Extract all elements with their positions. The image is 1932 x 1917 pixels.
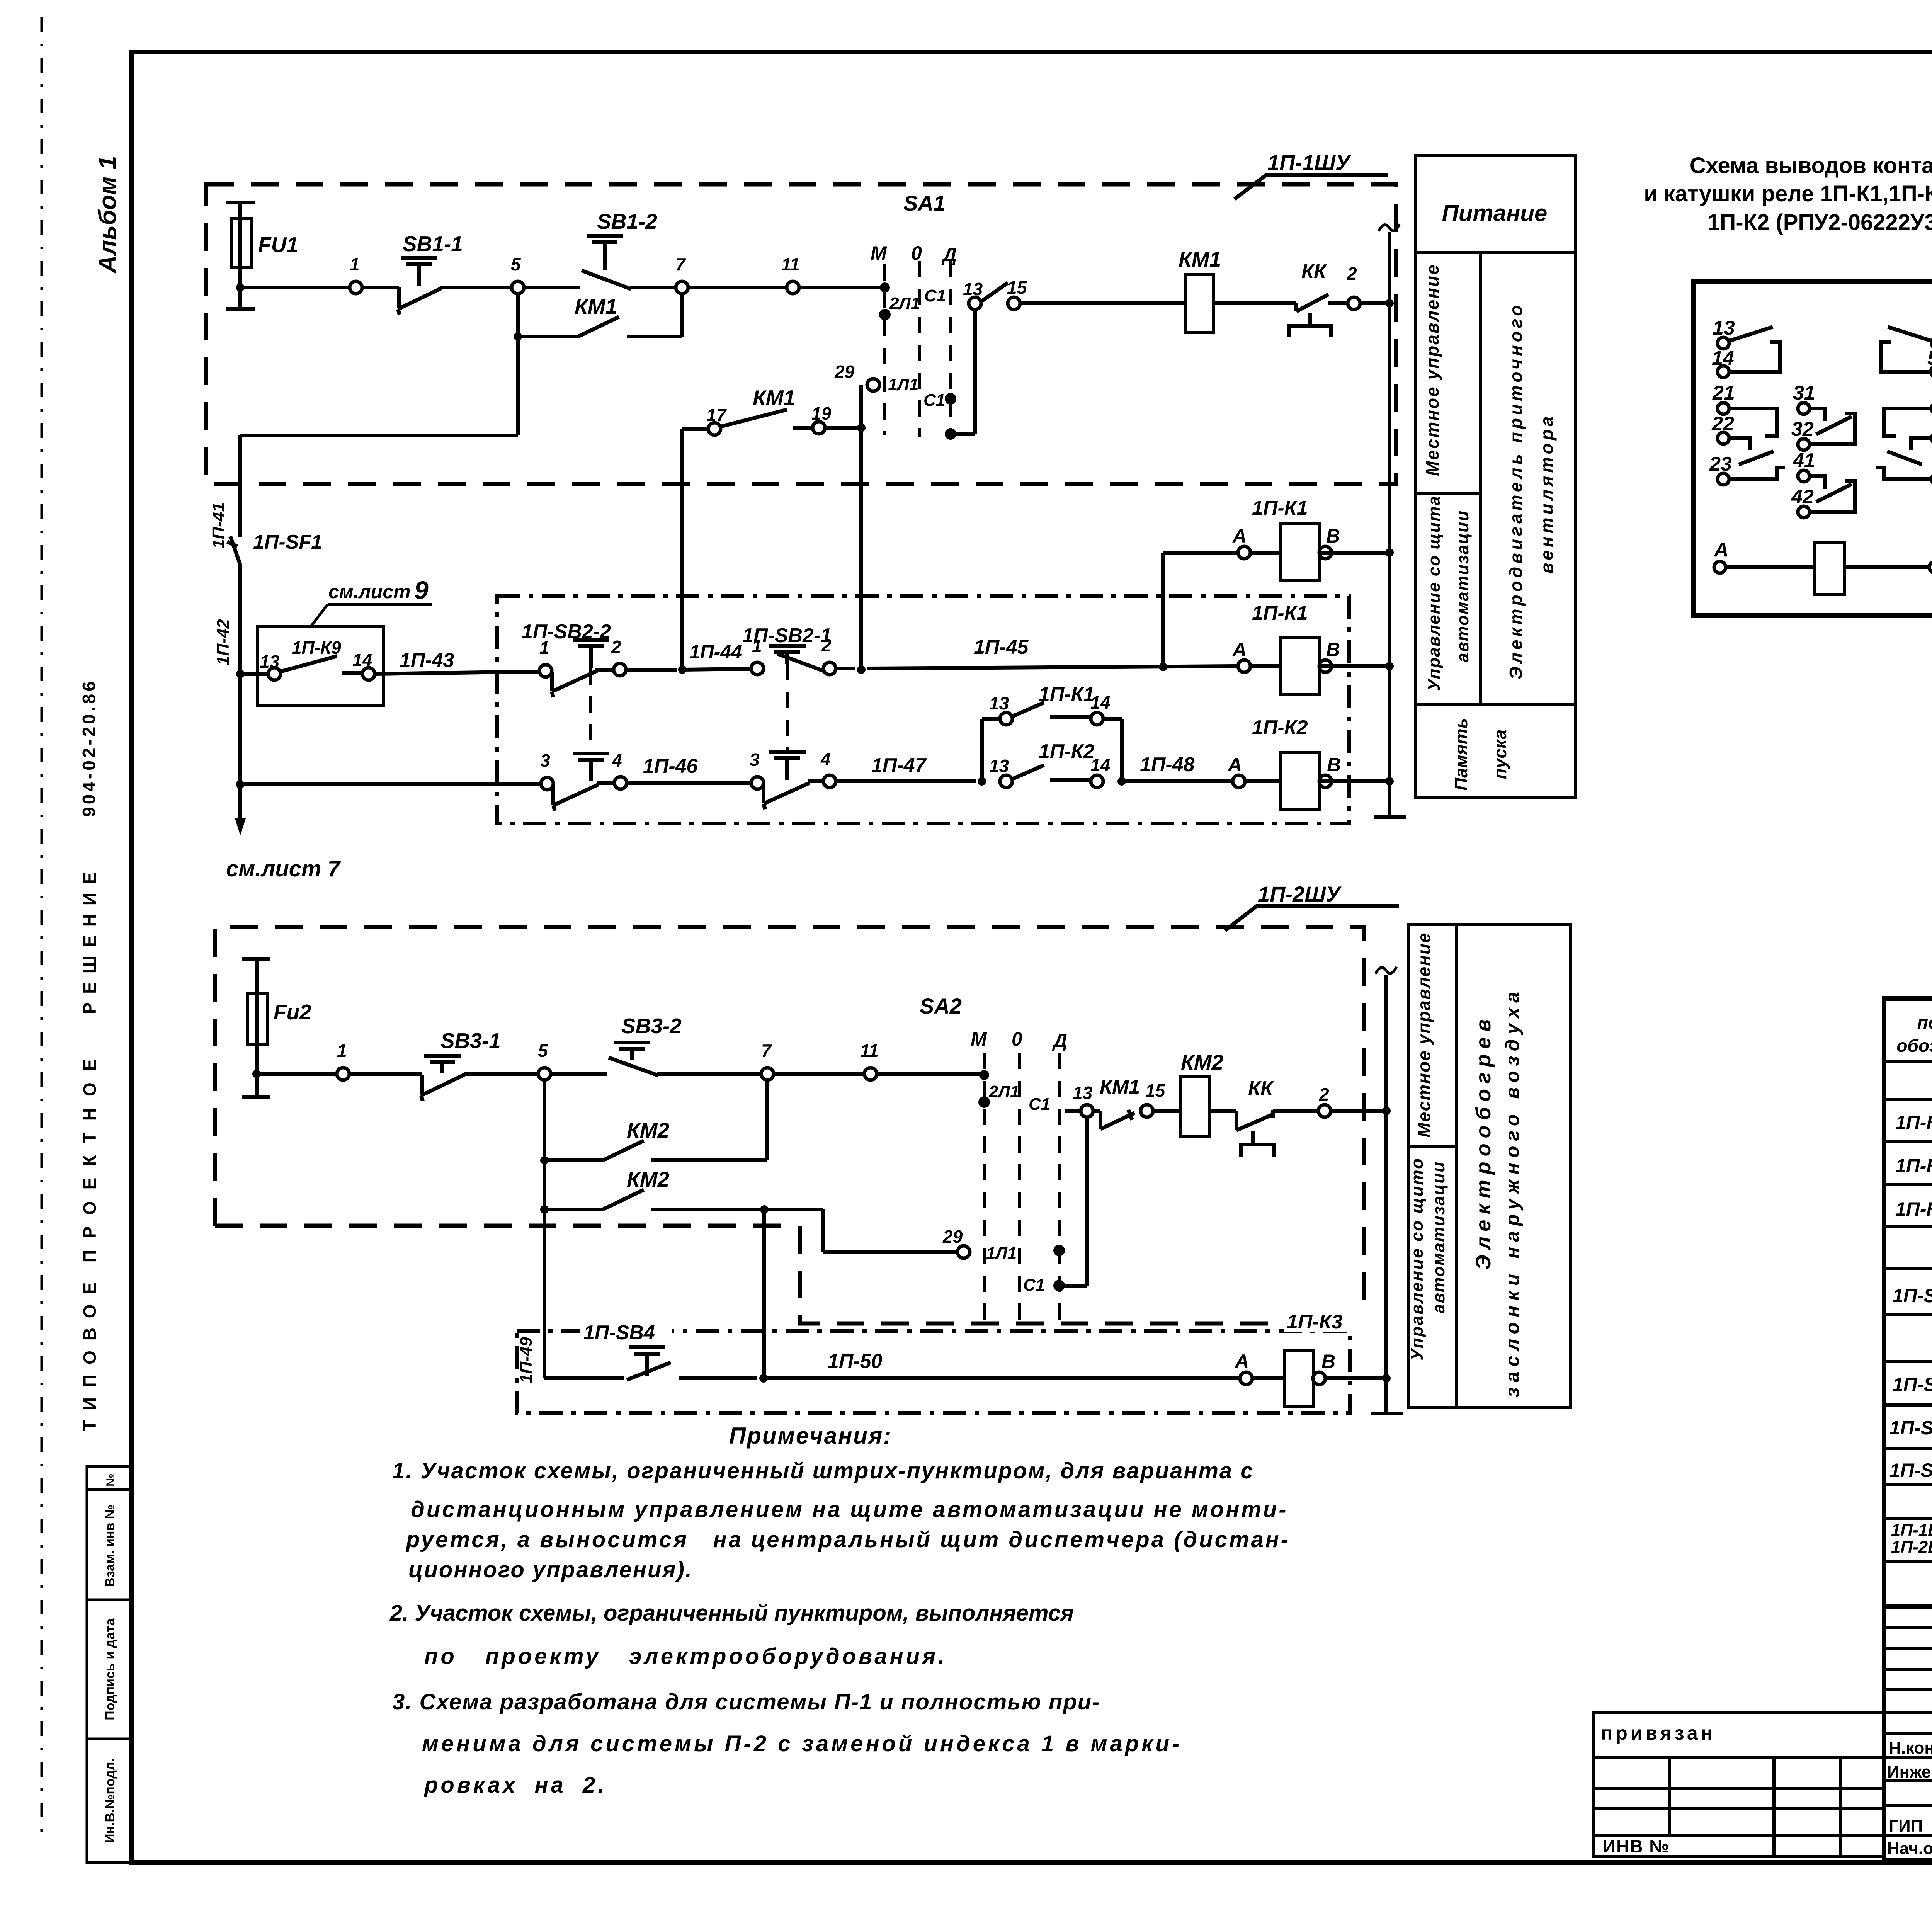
svg-text:А: А xyxy=(1232,639,1247,660)
svg-text:1П-47: 1П-47 xyxy=(871,754,927,777)
svg-text:SB1-1: SB1-1 xyxy=(403,232,463,256)
svg-text:дистанционным управлением на щ: дистанционным управлением на щите автома… xyxy=(411,1497,1288,1522)
svg-text:КК: КК xyxy=(1301,260,1327,283)
svg-text:21: 21 xyxy=(1712,382,1735,404)
svg-text:1П-К9: 1П-К9 xyxy=(292,638,341,658)
svg-text:29: 29 xyxy=(942,1226,963,1247)
svg-text:вентилятора: вентилятора xyxy=(1537,413,1557,574)
svg-text:4: 4 xyxy=(820,749,831,769)
svg-text:FU1: FU1 xyxy=(258,233,298,257)
svg-text:SB3-1: SB3-1 xyxy=(440,1029,501,1053)
svg-text:С1: С1 xyxy=(923,391,945,410)
svg-text:7: 7 xyxy=(761,1041,772,1061)
svg-text:Инженер: Инженер xyxy=(1887,1762,1932,1781)
svg-text:Управление со щито: Управление со щито xyxy=(1408,1157,1427,1361)
svg-text:2. Участок схемы, ограниченный: 2. Участок схемы, ограниченный пунктиром… xyxy=(389,1601,1074,1626)
svg-text:4: 4 xyxy=(612,750,622,771)
svg-text:КМ2: КМ2 xyxy=(627,1167,670,1191)
svg-text:1П-SF1: 1П-SF1 xyxy=(1893,1285,1932,1306)
svg-text:15: 15 xyxy=(1145,1080,1166,1101)
svg-text:Местное управление: Местное управление xyxy=(1414,932,1434,1137)
svg-text:и катушки реле 1П-К1,1П-К9,2П-: и катушки реле 1П-К1,1П-К9,2П-К9, xyxy=(1644,181,1932,206)
svg-text:SB3-2: SB3-2 xyxy=(621,1014,682,1038)
svg-text:9: 9 xyxy=(414,576,429,604)
svg-text:31: 31 xyxy=(1793,382,1815,404)
svg-text:1П-К1: 1П-К1 xyxy=(1252,497,1308,519)
svg-text:2: 2 xyxy=(1319,1084,1329,1104)
svg-text:3: 3 xyxy=(540,750,550,771)
svg-text:2: 2 xyxy=(1347,264,1357,284)
svg-text:Примечания:: Примечания: xyxy=(729,1423,892,1449)
svg-text:ПРОЕКТНОЕ: ПРОЕКТНОЕ xyxy=(80,1048,100,1263)
svg-text:14: 14 xyxy=(1712,347,1734,369)
svg-text:Н.контр: Н.контр xyxy=(1889,1738,1932,1757)
svg-text:1П-SB2-1: 1П-SB2-1 xyxy=(742,624,832,647)
svg-text:13: 13 xyxy=(989,693,1009,713)
svg-text:пуска: пуска xyxy=(1490,730,1510,779)
svg-text:автоматизации: автоматизации xyxy=(1453,510,1472,662)
svg-text:А: А xyxy=(1227,754,1242,776)
svg-text:Подпись и дата: Подпись и дата xyxy=(103,1618,117,1720)
svg-text:23: 23 xyxy=(1709,453,1732,475)
svg-text:1П-SB2-2: 1П-SB2-2 xyxy=(1889,1459,1932,1481)
svg-text:КМ2: КМ2 xyxy=(627,1118,670,1142)
svg-text:32: 32 xyxy=(1791,418,1814,441)
svg-text:Местное управление: Местное управление xyxy=(1422,264,1442,476)
svg-text:1П-50: 1П-50 xyxy=(828,1350,883,1373)
svg-text:2Л1: 2Л1 xyxy=(889,294,920,313)
svg-text:обознач.: обознач. xyxy=(1896,1036,1932,1056)
svg-text:менима для системы П-2 с замен: менима для системы П-2 с заменой индекса… xyxy=(422,1731,1182,1756)
svg-text:ГИП: ГИП xyxy=(1889,1817,1923,1835)
svg-text:13: 13 xyxy=(1073,1083,1093,1103)
svg-text:ционного управления).: ционного управления). xyxy=(408,1557,693,1582)
svg-text:904-02-20.86: 904-02-20.86 xyxy=(79,679,99,817)
svg-text:А: А xyxy=(1713,539,1729,561)
svg-text:по проекту электрооборудования: по проекту электрооборудования. xyxy=(424,1644,947,1669)
svg-text:КМ2: КМ2 xyxy=(1181,1050,1224,1074)
svg-text:С1: С1 xyxy=(924,286,946,305)
svg-text:1П-SB4: 1П-SB4 xyxy=(1893,1374,1932,1395)
svg-text:№: № xyxy=(104,1473,117,1486)
svg-text:Ин.В.№подл.: Ин.В.№подл. xyxy=(103,1758,117,1843)
svg-text:19: 19 xyxy=(811,403,832,424)
svg-text:Fu2: Fu2 xyxy=(274,1000,311,1024)
svg-text:1П-К1,: 1П-К1, xyxy=(1895,1112,1932,1133)
svg-text:1П-SB2-1: 1П-SB2-1 xyxy=(1889,1417,1932,1439)
svg-text:Память: Память xyxy=(1451,718,1471,791)
svg-text:автоматизации: автоматизации xyxy=(1429,1161,1448,1313)
svg-text:см.лист: см.лист xyxy=(328,581,411,602)
svg-text:SA1: SA1 xyxy=(903,191,946,215)
svg-text:1Л1: 1Л1 xyxy=(888,375,918,394)
svg-text:см.лист 7: см.лист 7 xyxy=(226,856,341,881)
svg-text:15: 15 xyxy=(1007,277,1027,298)
svg-text:5: 5 xyxy=(511,254,521,274)
svg-text:руется, а выносится на центр: руется, а выносится на центральный щит д… xyxy=(405,1527,1290,1552)
svg-text:1П-1ШУ: 1П-1ШУ xyxy=(1891,1521,1932,1539)
svg-text:Взам. инв №: Взам. инв № xyxy=(103,1504,117,1587)
svg-text:7: 7 xyxy=(675,254,686,274)
svg-text:1П-49: 1П-49 xyxy=(517,1337,536,1383)
svg-text:1П-SB4: 1П-SB4 xyxy=(583,1322,655,1344)
svg-text:11: 11 xyxy=(860,1041,879,1061)
svg-text:1П-48: 1П-48 xyxy=(1140,754,1195,776)
svg-text:1П-К2: 1П-К2 xyxy=(1039,740,1095,763)
svg-text:1Л1: 1Л1 xyxy=(986,1244,1017,1263)
svg-text:Альбом 1: Альбом 1 xyxy=(94,156,121,274)
svg-text:1П-41: 1П-41 xyxy=(209,502,228,549)
svg-text:С1: С1 xyxy=(1023,1276,1045,1294)
svg-text:54: 54 xyxy=(1927,347,1932,369)
svg-text:2: 2 xyxy=(611,637,621,657)
svg-text:SB1-2: SB1-2 xyxy=(597,209,657,233)
svg-text:КМ1: КМ1 xyxy=(1100,1076,1140,1098)
svg-text:1П-1ШУ: 1П-1ШУ xyxy=(1267,150,1352,175)
svg-text:17: 17 xyxy=(706,405,727,425)
svg-text:РЕШЕНИЕ: РЕШЕНИЕ xyxy=(80,864,100,1014)
svg-text:КМ1: КМ1 xyxy=(753,386,795,410)
svg-text:5: 5 xyxy=(538,1041,548,1061)
svg-text:1: 1 xyxy=(350,254,360,274)
svg-text:1. Участок схемы, ограниченный: 1. Участок схемы, ограниченный штрих-пун… xyxy=(392,1458,1254,1483)
svg-text:1П-К2: 1П-К2 xyxy=(1252,716,1308,739)
svg-text:ТИПОВОЕ: ТИПОВОЕ xyxy=(80,1272,100,1431)
svg-text:Электрообогрев: Электрообогрев xyxy=(1472,1014,1495,1270)
svg-text:Схема выводов контактов: Схема выводов контактов xyxy=(1690,153,1932,178)
svg-text:Электродвигатель приточного: Электродвигатель приточного xyxy=(1506,302,1526,680)
svg-text:В: В xyxy=(1326,639,1340,660)
svg-text:ИНВ №: ИНВ № xyxy=(1603,1836,1670,1856)
svg-text:Питание: Питание xyxy=(1442,200,1548,226)
svg-text:Управление со щита: Управление со щита xyxy=(1425,495,1444,691)
svg-text:1П-43: 1П-43 xyxy=(400,649,454,672)
svg-text:КК: КК xyxy=(1248,1077,1274,1100)
svg-text:SA2: SA2 xyxy=(920,994,962,1018)
svg-text:1П-К2 (РПУ2-06222У3А): 1П-К2 (РПУ2-06222У3А) xyxy=(1707,210,1932,235)
svg-text:42: 42 xyxy=(1791,486,1814,508)
svg-text:0: 0 xyxy=(1012,1028,1022,1050)
svg-text:В: В xyxy=(1321,1351,1335,1372)
svg-text:22: 22 xyxy=(1711,413,1734,435)
svg-text:1П-К2: 1П-К2 xyxy=(1895,1155,1932,1177)
svg-text:ровках на 2.: ровках на 2. xyxy=(423,1772,607,1798)
svg-text:1П-К1: 1П-К1 xyxy=(1039,683,1095,706)
svg-text:29: 29 xyxy=(834,362,855,382)
svg-text:14: 14 xyxy=(1090,755,1110,775)
svg-text:поз.: поз. xyxy=(1917,1012,1932,1032)
svg-text:1П-45: 1П-45 xyxy=(974,636,1029,658)
svg-text:13: 13 xyxy=(260,651,280,672)
svg-text:1П-2ШУ: 1П-2ШУ xyxy=(1891,1538,1932,1556)
svg-text:С1: С1 xyxy=(1029,1095,1050,1114)
svg-text:2Л1: 2Л1 xyxy=(988,1082,1019,1101)
svg-text:1: 1 xyxy=(337,1041,347,1061)
svg-text:0: 0 xyxy=(911,242,922,264)
svg-text:13: 13 xyxy=(963,279,983,299)
svg-text:1П-44: 1П-44 xyxy=(689,641,742,663)
svg-text:13: 13 xyxy=(989,756,1009,776)
svg-text:заслонки наружного воздуха: заслонки наружного воздуха xyxy=(1502,987,1523,1397)
svg-text:1П-SF1: 1П-SF1 xyxy=(253,531,322,553)
svg-text:В: В xyxy=(1327,754,1341,776)
svg-text:3: 3 xyxy=(750,750,760,770)
svg-text:1П-2ШУ: 1П-2ШУ xyxy=(1258,882,1342,906)
svg-text:14: 14 xyxy=(1090,692,1110,713)
svg-text:11: 11 xyxy=(781,254,800,274)
svg-text:привязан: привязан xyxy=(1601,1722,1716,1744)
svg-text:М: М xyxy=(871,242,887,264)
svg-text:14: 14 xyxy=(352,650,372,670)
svg-text:3. Схема разработана для систе: 3. Схема разработана для системы П-1 и п… xyxy=(392,1689,1100,1715)
svg-text:13: 13 xyxy=(1713,317,1735,339)
svg-text:М: М xyxy=(971,1028,987,1050)
svg-text:КМ1: КМ1 xyxy=(1179,247,1221,271)
svg-text:1П-К3: 1П-К3 xyxy=(1895,1198,1932,1220)
svg-text:41: 41 xyxy=(1793,449,1815,472)
svg-text:1П-42: 1П-42 xyxy=(214,619,233,665)
svg-text:КМ1: КМ1 xyxy=(575,294,617,318)
svg-text:А: А xyxy=(1234,1351,1249,1372)
svg-text:1П-К1: 1П-К1 xyxy=(1252,602,1308,624)
svg-text:А: А xyxy=(1232,525,1247,547)
svg-text:1П-SB2-2: 1П-SB2-2 xyxy=(522,621,611,643)
svg-text:Нач.отд.: Нач.отд. xyxy=(1887,1839,1932,1858)
svg-text:1П-46: 1П-46 xyxy=(643,755,698,777)
svg-text:В: В xyxy=(1326,525,1340,547)
svg-text:Д: Д xyxy=(1052,1030,1067,1051)
svg-text:1П-К3: 1П-К3 xyxy=(1287,1311,1343,1333)
